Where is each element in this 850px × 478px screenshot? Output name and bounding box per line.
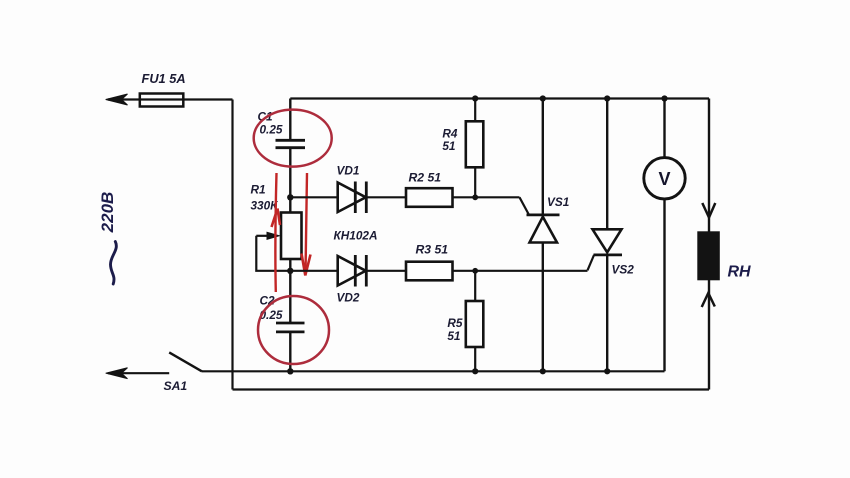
svg-text:51: 51 [442, 139, 455, 153]
thyristor VS2 triangle [593, 229, 622, 252]
arrow RH down chevron [702, 203, 715, 218]
wire SA1 input [108, 372, 169, 374]
wire top rail [290, 97, 709, 99]
capacitor C2 [276, 323, 305, 332]
svg-text:330К: 330К [251, 199, 279, 213]
node R5 bottom [472, 368, 478, 374]
capacitor C1 [276, 140, 306, 147]
wire VD2 to R3 [366, 270, 406, 272]
svg-text:VS1: VS1 [547, 195, 569, 209]
wire VD1 to R2 [366, 196, 406, 198]
node VS2 top [604, 95, 610, 101]
switch SA1 blade [169, 352, 202, 371]
wiper arm R1 [256, 235, 270, 237]
resistor R3 [406, 262, 453, 281]
wire R2 to VS1 gate [453, 196, 520, 198]
node R5 top [472, 268, 478, 274]
wire C branch lower segment [289, 259, 291, 324]
wire R5 top lead [474, 271, 476, 301]
resistor R5 [466, 301, 484, 347]
svg-text:R2 51: R2 51 [409, 171, 442, 185]
node C2 bottom [287, 368, 293, 374]
wire RH bottom lead [708, 280, 710, 390]
thyristor VS2 cathode bar [594, 253, 623, 256]
voltmeter V1 [644, 158, 685, 199]
red circle around C2 [258, 296, 329, 364]
wire C branch mid segment [289, 148, 291, 213]
wire voltmeter top lead [663, 99, 665, 158]
wire node to VD1 [290, 196, 337, 198]
svg-text:VD1: VD1 [337, 164, 360, 178]
thyristor VS1 triangle [530, 217, 558, 243]
svg-text:V: V [658, 169, 670, 189]
node VD1 branch [287, 194, 293, 200]
arrow SA1 left [106, 368, 128, 379]
wire fuse input horizontal [108, 98, 233, 100]
wire VS1 anode top [542, 99, 544, 215]
red circle around C1 [254, 110, 332, 167]
svg-text:R1: R1 [251, 183, 266, 197]
load RH [697, 231, 720, 280]
wire VS2 cathode bottom [606, 255, 608, 371]
svg-text:220В: 220В [98, 192, 117, 234]
resistor R4 [466, 121, 484, 167]
svg-text:RН: RН [728, 264, 752, 281]
arrow RH up chevron [702, 293, 715, 307]
wire outer bottom rail [233, 388, 710, 390]
node VD2 branch [287, 268, 293, 274]
dinistor VD2 [338, 256, 366, 286]
wire C branch bottom segment [289, 332, 291, 371]
wire C branch top segment [289, 99, 291, 140]
wire wiper return [256, 236, 290, 271]
wire RH top lead [708, 99, 710, 233]
svg-text:FU1 5A: FU1 5A [142, 71, 186, 86]
resistor R1 potentiometer [281, 213, 302, 260]
svg-text:КН102А: КН102А [334, 229, 378, 243]
node voltmeter top [661, 95, 667, 101]
svg-text:0.25: 0.25 [260, 123, 283, 137]
wire R5 bottom lead [474, 347, 476, 371]
wire left vertical [231, 100, 233, 390]
thyristor VS2 gate diagonal [588, 255, 595, 270]
svg-text:R3 51: R3 51 [416, 243, 449, 257]
wire R4 bottom lead [474, 167, 476, 197]
wire R4 top lead [474, 99, 476, 122]
red arrow up left of R1 [275, 173, 276, 292]
wire voltmeter bottom lead [663, 199, 665, 371]
wire R3 to VS2 gate [453, 270, 588, 272]
svg-text:SA1: SA1 [164, 379, 188, 393]
wire inner bottom rail [202, 370, 665, 372]
svg-text:VD2: VD2 [337, 291, 360, 305]
node R4 top [472, 95, 478, 101]
svg-text:VS2: VS2 [612, 263, 635, 277]
tilde mains squiggle [110, 242, 116, 285]
dinistor VD1 [338, 183, 366, 213]
wire VS2 anode top [606, 99, 608, 230]
thyristor VS1 cathode bar [527, 213, 560, 216]
node VS1 top [540, 95, 546, 101]
node R4 bottom [472, 194, 478, 200]
node VS1 bottom [540, 368, 546, 374]
red arrow down right of R1 [306, 173, 308, 274]
node VS2 bottom [604, 368, 610, 374]
svg-text:R5: R5 [447, 316, 463, 330]
wire node to VD2 [290, 270, 337, 272]
svg-text:51: 51 [447, 329, 460, 343]
fuse FU1 [140, 94, 184, 107]
wire VS1 cathode bottom [542, 243, 544, 372]
arrow input left [106, 94, 128, 105]
thyristor VS1 gate diagonal [520, 197, 530, 215]
resistor R2 [406, 188, 453, 207]
